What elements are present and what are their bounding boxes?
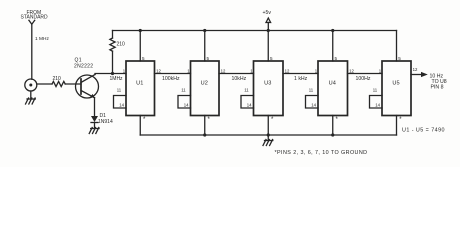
- pin 11-14 feedback loop U2: [178, 96, 191, 109]
- pin 11-14 feedback loop U4: [306, 96, 319, 109]
- ground pin riser U3: [267, 116, 269, 136]
- wire U4 pin12 to U5 pin1, 100Hz net: [348, 73, 383, 75]
- ground connector shell: [26, 91, 36, 104]
- label Q1 2N2222: [74, 58, 93, 70]
- svg-text:100kHz: 100kHz: [162, 76, 180, 82]
- wire U1 pin12 to U2 pin1, 100kHz net: [155, 73, 191, 75]
- junction dot collector/R2: [111, 72, 114, 75]
- svg-text:12: 12: [156, 68, 161, 73]
- svg-text:U1: U1: [136, 80, 143, 86]
- svg-text:10kHz: 10kHz: [232, 76, 247, 82]
- wire R1 to Q1 base: [65, 83, 81, 85]
- input arrowhead: [29, 20, 35, 24]
- node FROM STANDARD label: [21, 10, 49, 21]
- svg-text:14: 14: [311, 102, 316, 107]
- svg-text:14: 14: [119, 102, 124, 107]
- ground pin riser U4: [332, 116, 334, 136]
- label 10 Hz TO U8 PIN 8: [430, 74, 447, 91]
- svg-text:100Hz: 100Hz: [356, 76, 371, 82]
- svg-text:5: 5: [398, 56, 401, 61]
- svg-text:5: 5: [334, 56, 337, 61]
- junction dot +5V rail U2: [203, 29, 206, 32]
- wire +5V top rail: [113, 30, 397, 32]
- svg-text:5: 5: [142, 56, 145, 61]
- junction dot +5V rail U4: [331, 29, 334, 32]
- ground pin riser U5: [396, 116, 398, 136]
- IC U5 7490: [370, 31, 418, 136]
- junction dot ground rail U3: [267, 133, 270, 136]
- diode D1 1N914: [91, 98, 98, 128]
- output arrowhead: [421, 72, 428, 77]
- svg-text:14: 14: [247, 102, 252, 107]
- connector J1: [25, 79, 37, 91]
- +5V supply symbol: [263, 10, 272, 31]
- svg-text:+5v: +5v: [263, 10, 272, 16]
- svg-text:11: 11: [373, 87, 378, 92]
- junction dot ground rail U4: [331, 133, 334, 136]
- svg-text:12: 12: [349, 68, 354, 73]
- IC U3 7490: [241, 29, 290, 137]
- svg-text:1 MHz: 1 MHz: [35, 36, 49, 42]
- svg-text:2N2222: 2N2222: [74, 64, 93, 70]
- wire U2 pin12 to U3 pin1, 10kHz net: [219, 73, 254, 75]
- svg-text:14: 14: [375, 102, 380, 107]
- svg-text:U1 - U5 = 7490: U1 - U5 = 7490: [402, 127, 445, 133]
- svg-text:U5: U5: [392, 80, 399, 86]
- svg-text:12: 12: [413, 67, 418, 72]
- pin 5 riser U4: [332, 31, 334, 62]
- svg-text:*PINS 2, 3, 6, 7, 10 TO GROUN: *PINS 2, 3, 6, 7, 10 TO GROUND: [275, 150, 368, 156]
- svg-text:11: 11: [244, 87, 249, 92]
- svg-text:12: 12: [285, 68, 290, 73]
- pin 11-14 feedback loop U1: [114, 96, 127, 109]
- svg-text:1N914: 1N914: [98, 119, 113, 125]
- svg-text:5: 5: [270, 56, 273, 61]
- svg-text:1 kHz: 1 kHz: [294, 76, 308, 82]
- ground symbol on rail: [263, 135, 273, 146]
- pin 5 riser U5: [396, 31, 398, 62]
- pin 5 riser U1: [139, 31, 141, 62]
- IC U4 7490: [306, 29, 355, 137]
- ground pin riser U2: [204, 116, 206, 136]
- pin 5 riser U3: [267, 31, 269, 62]
- svg-text:11: 11: [309, 87, 314, 92]
- svg-text:PIN 8: PIN 8: [431, 84, 444, 90]
- IC U1 7490: [114, 29, 162, 135]
- wire ground rail bottom: [140, 134, 396, 136]
- pin 5 riser U2: [204, 31, 206, 62]
- pin 11-14 feedback loop U5: [370, 96, 383, 109]
- svg-text:14: 14: [184, 102, 189, 107]
- ground emitter/diode: [89, 128, 99, 134]
- ground pin riser U1: [139, 116, 141, 136]
- junction dot +5V rail U1: [139, 29, 142, 32]
- wire U3 pin12 to U4 pin1, 1kHz net: [283, 73, 318, 75]
- svg-text:U2: U2: [201, 80, 208, 86]
- svg-text:STANDARD: STANDARD: [21, 15, 49, 21]
- wire connector to R1: [37, 83, 52, 85]
- svg-text:U3: U3: [264, 80, 271, 86]
- IC U2 7490: [178, 29, 226, 137]
- wire collector to U1 pin 1: [95, 74, 126, 75]
- pin 11-14 feedback loop U3: [241, 96, 254, 109]
- transistor Q1: [76, 75, 99, 99]
- svg-text:U4: U4: [329, 80, 336, 86]
- svg-text:11: 11: [117, 87, 122, 92]
- svg-text:11: 11: [181, 87, 186, 92]
- svg-text:12: 12: [221, 68, 226, 73]
- wire input vertical 1 MHz net: [31, 24, 33, 79]
- svg-text:1MHz: 1MHz: [110, 76, 124, 82]
- resistor R2 210 pull-up: [110, 31, 115, 74]
- wire U5 pin12 output 10Hz net: [411, 74, 422, 76]
- junction dot ground rail U2: [203, 133, 206, 136]
- junction dot +5V rail U3: [267, 29, 270, 32]
- svg-text:210: 210: [117, 42, 126, 48]
- svg-text:5: 5: [206, 56, 209, 61]
- svg-text:210: 210: [53, 76, 62, 82]
- resistor R1 210: [52, 81, 65, 86]
